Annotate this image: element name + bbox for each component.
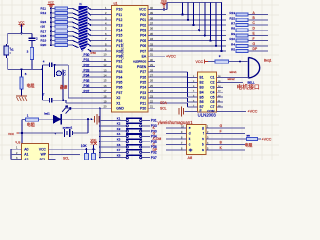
svg-text:R19: R19 xyxy=(41,38,47,42)
svg-text:F: F xyxy=(220,130,222,134)
svg-text:K4: K4 xyxy=(117,132,121,136)
wire top rail xyxy=(167,2,222,4)
U1 right pin 39 (P00) xyxy=(148,14,155,16)
svg-text:R4: R4 xyxy=(231,42,235,46)
svg-text:电阻: 电阻 xyxy=(27,121,35,127)
svg-text:g: g xyxy=(202,126,204,130)
svg-text:VCC: VCC xyxy=(139,8,147,12)
bus entry xyxy=(73,27,79,30)
wire reset junction rail xyxy=(8,68,32,70)
svg-text:K8: K8 xyxy=(117,153,121,157)
U1 left pin 1 (P10) xyxy=(105,8,112,10)
wire matrix vertical 3 xyxy=(193,3,195,25)
switch K8 xyxy=(99,157,101,159)
svg-text:DP: DP xyxy=(253,47,258,51)
U2 pin C6 xyxy=(217,101,223,103)
svg-text:P04: P04 xyxy=(140,34,146,38)
svg-text:R5: R5 xyxy=(231,48,235,52)
svg-text:k1: k1 xyxy=(11,47,15,51)
svg-text:电阻: 电阻 xyxy=(27,82,35,88)
svg-text:P31: P31 xyxy=(84,58,90,62)
svg-text:C2: C2 xyxy=(210,81,214,85)
svg-text:R18: R18 xyxy=(41,34,47,38)
wire C2 net xyxy=(223,81,243,83)
svg-text:A2: A2 xyxy=(24,158,28,160)
wire crystal left rail xyxy=(41,65,43,100)
svg-text:B2: B2 xyxy=(200,81,204,85)
wire R21 to bell xyxy=(229,61,248,63)
wire down to eeprom xyxy=(21,133,23,145)
svg-text:A1: A1 xyxy=(24,153,28,157)
svg-text:A0: A0 xyxy=(24,147,28,151)
svg-text:K2: K2 xyxy=(117,122,121,126)
svg-text:f: f xyxy=(203,132,204,136)
switch K2 xyxy=(99,125,101,127)
U1 right pin 28 (P27) xyxy=(148,71,155,73)
svg-text:25: 25 xyxy=(150,84,153,88)
U1 left pin 4 (P13) xyxy=(105,24,112,26)
ic U2 ULN2003 body xyxy=(197,72,216,112)
wire matrix vertical 7 xyxy=(215,3,217,46)
wire P07 row xyxy=(155,50,226,52)
wire SCL net xyxy=(55,153,80,155)
wire P03 row xyxy=(155,29,226,31)
bus exit wire to U1 xyxy=(88,7,91,9)
U1 left pin 13 (P33) xyxy=(105,71,112,73)
svg-text:P27: P27 xyxy=(140,70,146,74)
ground (reset) xyxy=(16,95,27,97)
bus entry xyxy=(73,8,79,11)
U3 pin SCL xyxy=(49,159,56,161)
U1 right pin 37 (P02) xyxy=(148,24,155,26)
svg-text:P34: P34 xyxy=(84,74,90,78)
svg-text:30: 30 xyxy=(150,58,153,62)
DS1 right pin 4 xyxy=(206,144,213,146)
svg-text:39: 39 xyxy=(150,11,153,15)
U3 pin VCC xyxy=(49,148,56,150)
wire EA pin xyxy=(155,55,165,57)
bus exit wire to U1 xyxy=(88,49,91,51)
svg-text:电机接口: 电机接口 xyxy=(237,83,260,91)
svg-text:WP: WP xyxy=(41,153,47,157)
wire X2 to U1 xyxy=(67,65,69,98)
svg-text:CY1: CY1 xyxy=(63,70,67,76)
svg-text:P01: P01 xyxy=(140,18,146,22)
svg-text:ALE/PROG: ALE/PROG xyxy=(133,60,146,64)
svg-text:P31: P31 xyxy=(151,119,157,123)
wire matrix vertical 2 xyxy=(187,3,189,20)
svg-text:P37: P37 xyxy=(151,156,157,160)
svg-text:Beq1: Beq1 xyxy=(264,58,272,62)
svg-text:VCC: VCC xyxy=(196,60,204,64)
wire P06 row xyxy=(155,45,226,47)
svg-text:SCL: SCL xyxy=(160,106,167,110)
wires P2x to ULN inputs xyxy=(155,71,188,73)
DS1 right pin 5 xyxy=(206,149,213,151)
U1 right pin 35 (P04) xyxy=(148,34,155,36)
svg-text:电阻: 电阻 xyxy=(245,143,253,148)
wire keypad left rail xyxy=(99,107,101,109)
U1 left pin 2 (P11) xyxy=(105,14,112,16)
svg-text:B1: B1 xyxy=(200,76,204,80)
wire P01 row xyxy=(155,19,226,21)
svg-text:P22: P22 xyxy=(140,96,146,100)
svg-text:P36: P36 xyxy=(116,86,122,90)
svg-text:B6: B6 xyxy=(200,100,204,104)
svg-text:GND: GND xyxy=(116,107,124,111)
svg-text:R10: R10 xyxy=(229,37,235,41)
svg-text:SDA: SDA xyxy=(160,101,168,105)
wire segment net /COM xyxy=(166,138,180,140)
svg-text:+VCC: +VCC xyxy=(166,55,176,59)
U3 pin WP xyxy=(49,153,56,155)
svg-text:35: 35 xyxy=(150,32,153,36)
U2 pin B2 xyxy=(191,81,197,83)
wire matrix vertical 4 xyxy=(198,3,200,31)
svg-text:yiweishumaguan1: yiweishumaguan1 xyxy=(158,120,194,125)
wire GND row stub xyxy=(65,107,105,109)
svg-text:32: 32 xyxy=(150,48,153,52)
bus entry xyxy=(73,18,79,21)
U1 left pin 3 (P12) xyxy=(105,19,112,21)
U1 left pin 12 (P32) xyxy=(105,66,112,68)
wire to current resistor xyxy=(213,138,247,140)
bus exit wire to U1 xyxy=(88,39,91,41)
svg-text:23: 23 xyxy=(150,94,153,98)
svg-text:l1: l1 xyxy=(80,2,83,6)
bus exit wire to U1 xyxy=(88,33,91,35)
wire X1 net bottom xyxy=(42,99,49,101)
wire net P32 to U1 xyxy=(82,66,105,68)
svg-text:P31: P31 xyxy=(116,60,122,64)
svg-text:EA: EA xyxy=(142,55,147,59)
svg-text:P30: P30 xyxy=(116,55,122,59)
svg-text:31: 31 xyxy=(150,53,153,57)
wire P04 row xyxy=(155,34,226,36)
U1 right pin 31 (EA) xyxy=(148,55,155,57)
svg-text:B: B xyxy=(220,141,222,145)
svg-text:28: 28 xyxy=(150,68,153,72)
wire top rail riser xyxy=(166,3,168,10)
svg-text:SCL: SCL xyxy=(63,156,69,160)
svg-text:wire1: wire1 xyxy=(230,70,238,74)
wire resistor to +VCC xyxy=(258,138,262,140)
wire segment net G xyxy=(166,133,180,135)
wire X2 net top xyxy=(52,64,68,66)
svg-text:K1: K1 xyxy=(117,116,121,120)
svg-text:10K: 10K xyxy=(81,144,88,148)
svg-text:n: n xyxy=(202,137,204,141)
svg-text:B3: B3 xyxy=(200,86,204,90)
crystal CY1 xyxy=(54,65,56,70)
U2 pin C1 xyxy=(217,77,223,79)
svg-text:R24: R24 xyxy=(41,20,47,24)
bus exit wire to U1 xyxy=(88,13,91,15)
bus entry xyxy=(73,22,79,25)
svg-text:P05: P05 xyxy=(140,39,146,43)
U1 left pin 14 (P34) xyxy=(105,76,112,78)
U2 pin B1 xyxy=(191,77,197,79)
bus entry xyxy=(73,45,79,48)
wire reset to crystal rail xyxy=(32,68,43,70)
svg-text:R17: R17 xyxy=(41,29,47,33)
svg-text:29: 29 xyxy=(150,63,153,67)
wire VCC pin to symbol xyxy=(155,8,167,10)
wire P00 row xyxy=(155,14,226,16)
U1 left pin 6 (P15) xyxy=(105,34,112,36)
svg-text:P35: P35 xyxy=(116,81,122,85)
svg-text:37: 37 xyxy=(150,22,153,26)
svg-text:P33: P33 xyxy=(116,70,122,74)
U1 right pin 27 (P26) xyxy=(148,76,155,78)
svg-text:P37: P37 xyxy=(116,91,122,95)
svg-text:C5: C5 xyxy=(210,95,214,99)
wire net P36 to U1 xyxy=(82,86,105,88)
U1 left pin 19 (X1) xyxy=(105,102,112,104)
svg-text:C1: C1 xyxy=(210,76,214,80)
wire matrix vertical 8 xyxy=(221,3,223,51)
svg-text:P32: P32 xyxy=(116,65,122,69)
svg-text:dp: dp xyxy=(189,148,193,152)
bus entry xyxy=(73,13,79,16)
DS1 left pin 10 xyxy=(180,127,187,129)
svg-text:+VCC: +VCC xyxy=(248,110,258,114)
U3 pin A2 xyxy=(16,159,22,161)
wire segment out xyxy=(213,144,245,146)
wire segment out xyxy=(213,149,245,151)
U1 right pin 22 (P21) xyxy=(148,102,155,104)
svg-text:33: 33 xyxy=(150,42,153,46)
U2 pin B5 xyxy=(191,96,197,98)
svg-text:P33: P33 xyxy=(84,69,90,73)
svg-text:e: e xyxy=(189,126,191,130)
svg-text:K3: K3 xyxy=(117,127,121,131)
svg-text:R13: R13 xyxy=(229,11,235,15)
svg-text:d: d xyxy=(189,132,191,136)
svg-text:led1: led1 xyxy=(44,112,50,116)
svg-text:P11: P11 xyxy=(116,13,122,17)
U1 right pin 32 (P07) xyxy=(148,50,155,52)
svg-text:24: 24 xyxy=(150,89,153,93)
svg-text:P30: P30 xyxy=(91,51,97,55)
wire net P34 to U1 xyxy=(82,76,105,78)
DS1 left pin 7 xyxy=(180,144,187,146)
svg-text:P35: P35 xyxy=(84,79,90,83)
svg-text:22: 22 xyxy=(150,100,153,104)
U2 pin B3 xyxy=(191,86,197,88)
svg-text:P15: P15 xyxy=(116,34,122,38)
U2 pin C2 xyxy=(217,81,223,83)
svg-text:G: G xyxy=(153,132,156,136)
U1 left pin 7 (P16) xyxy=(105,40,112,42)
U2 pin C5 xyxy=(217,96,223,98)
wire eeprom left rail xyxy=(11,148,16,150)
svg-text:R9: R9 xyxy=(231,32,235,36)
svg-text:*U3: *U3 xyxy=(15,140,20,144)
U1 left pin 15 (P35) xyxy=(105,81,112,83)
svg-text:40: 40 xyxy=(150,6,153,10)
U1 left pin 17 (P37) xyxy=(105,92,112,94)
wire VCC stem xyxy=(21,25,23,34)
U2 pin C4 xyxy=(217,91,223,93)
svg-text:P03: P03 xyxy=(140,29,146,33)
switch K1 xyxy=(99,120,101,122)
svg-text:/COM: /COM xyxy=(153,137,162,141)
switch K6 xyxy=(99,146,101,148)
svg-text:P02: P02 xyxy=(140,23,146,27)
svg-text:P07: P07 xyxy=(140,49,146,53)
svg-text:G: G xyxy=(253,42,256,46)
U1 right pin 30 (ALE) xyxy=(148,60,155,62)
svg-text:RST: RST xyxy=(116,49,123,53)
svg-text:C3: C3 xyxy=(210,86,214,90)
U1 right pin 36 (P03) xyxy=(148,29,155,31)
svg-text:r16: r16 xyxy=(41,25,46,29)
svg-text:21: 21 xyxy=(150,105,153,109)
svg-text:C4: C4 xyxy=(210,90,214,94)
wire net P31 to U1 xyxy=(82,60,105,62)
wire vcc to R21 xyxy=(208,61,215,63)
svg-text:F: F xyxy=(253,37,255,41)
svg-text:X1: X1 xyxy=(116,101,120,105)
DS1 left pin 9 xyxy=(180,133,187,135)
resistor R24 pullup xyxy=(93,149,95,153)
svg-text:P32: P32 xyxy=(84,63,90,67)
U1 left pin 10 (P30) xyxy=(105,55,112,57)
svg-text:P12: P12 xyxy=(116,18,122,22)
svg-text:B5: B5 xyxy=(200,95,204,99)
wire segment out xyxy=(213,133,245,135)
wire left branch bottom xyxy=(7,58,9,69)
svg-text:P26: P26 xyxy=(140,75,146,79)
svg-text:R15: R15 xyxy=(229,16,235,20)
wire segment net C xyxy=(166,144,180,146)
svg-text:P36: P36 xyxy=(84,84,90,88)
svg-text:power1: power1 xyxy=(63,125,73,129)
wire segment net K xyxy=(166,127,180,129)
wire vcc row xyxy=(19,132,63,134)
svg-text:P30: P30 xyxy=(84,53,90,57)
U2 pin B7 xyxy=(191,106,197,108)
wire led cathode xyxy=(61,118,93,120)
wire net P33 to U1 xyxy=(82,71,105,73)
wire segment out xyxy=(213,127,245,129)
wire matrix vertical 5 xyxy=(204,3,206,36)
buzzer BELL Beq1 xyxy=(249,57,260,78)
svg-text:34: 34 xyxy=(150,37,153,41)
svg-text:P13: P13 xyxy=(116,23,122,27)
bus exit wire to U1 xyxy=(88,44,91,46)
svg-text:b: b xyxy=(202,143,204,147)
svg-text:VCC: VCC xyxy=(91,138,97,142)
svg-text:P25: P25 xyxy=(140,81,146,85)
svg-text:P14: P14 xyxy=(116,29,122,33)
svg-text:36: 36 xyxy=(150,27,153,31)
svg-text:BELL: BELL xyxy=(248,80,255,84)
wire P02 row xyxy=(155,24,226,26)
wire segment net DP xyxy=(166,149,180,151)
U1 right pin 25 (P24) xyxy=(148,86,155,88)
svg-text:K7: K7 xyxy=(117,148,121,152)
svg-text:27: 27 xyxy=(150,74,153,78)
U1 right pin 29 (PSEN) xyxy=(148,66,155,68)
wire left branch down xyxy=(7,33,9,44)
wire P21 net SDA xyxy=(155,102,159,104)
svg-text:+VCC: +VCC xyxy=(262,138,272,142)
svg-text:B4: B4 xyxy=(200,90,204,94)
bus entry xyxy=(73,36,79,39)
bus entry xyxy=(73,40,79,43)
svg-text:VCC: VCC xyxy=(39,147,47,151)
U2 pin C3 xyxy=(217,86,223,88)
wire pull-up rail vertical xyxy=(50,5,52,9)
wire P05 row xyxy=(155,40,226,42)
U2 pin C7 xyxy=(217,106,223,108)
svg-text:A8: A8 xyxy=(188,156,193,160)
U1 right pin 23 (P22) xyxy=(148,97,155,99)
wire X1 to U1 xyxy=(65,100,67,103)
bus B1 (P1 bus) xyxy=(79,6,88,52)
svg-text:R11: R11 xyxy=(41,6,47,10)
svg-text:R7: R7 xyxy=(231,22,235,26)
svg-text:P06: P06 xyxy=(140,44,146,48)
svg-text:P10: P10 xyxy=(116,8,122,12)
U1 left pin 16 (P36) xyxy=(105,86,112,88)
svg-text:DP: DP xyxy=(153,148,158,152)
wire pullup rail xyxy=(55,148,96,150)
svg-text:38: 38 xyxy=(150,16,153,20)
U3 pin A1 xyxy=(16,153,22,155)
U1 right pin 38 (P01) xyxy=(148,19,155,21)
svg-text:晶振: 晶振 xyxy=(60,84,68,89)
svg-text:ULN2003: ULN2003 xyxy=(198,113,217,118)
U1 left pin 20 (GND) xyxy=(105,107,112,109)
switch K3 xyxy=(99,130,101,132)
bus exit wire to U1 xyxy=(88,23,91,25)
U3 pin A0 xyxy=(16,148,22,150)
resistor R23 pullup xyxy=(85,149,87,153)
wire net P35 to U1 xyxy=(82,81,105,83)
switch K5 xyxy=(99,141,101,143)
power bars (red) xyxy=(94,116,96,123)
U1 right pin 24 (P23) xyxy=(148,92,155,94)
bus entry xyxy=(73,31,79,34)
U1 right pin 21 (P20) xyxy=(148,107,155,109)
svg-text:P16: P16 xyxy=(116,39,122,43)
U1 left pin 5 (P14) xyxy=(105,29,112,31)
svg-text:PSEN: PSEN xyxy=(137,65,147,69)
svg-text:C6: C6 xyxy=(210,100,214,104)
DS1 left pin 8 xyxy=(180,138,187,140)
svg-text:K5: K5 xyxy=(117,138,121,142)
svg-text:P37: P37 xyxy=(84,89,90,93)
wire battery right xyxy=(72,132,88,134)
ground (ULN E pin) xyxy=(185,110,192,112)
wire matrix vertical 1 xyxy=(182,3,184,15)
svg-text:R20: R20 xyxy=(41,43,47,47)
wire R1 to LED xyxy=(39,118,53,120)
U1 left pin 9 (RST) xyxy=(105,50,112,52)
svg-text:R12: R12 xyxy=(41,11,47,15)
bus exit wire to U1 xyxy=(88,18,91,20)
svg-text:P24: P24 xyxy=(140,86,146,90)
DS1 right pin 3 xyxy=(206,138,213,140)
U2 pin B4 xyxy=(191,91,197,93)
wire net P30 to U1 xyxy=(82,55,105,57)
U1 left pin 18 (X2) xyxy=(105,97,112,99)
U1 left pin 11 (P31) xyxy=(105,60,112,62)
wire reset top rail xyxy=(8,32,32,34)
